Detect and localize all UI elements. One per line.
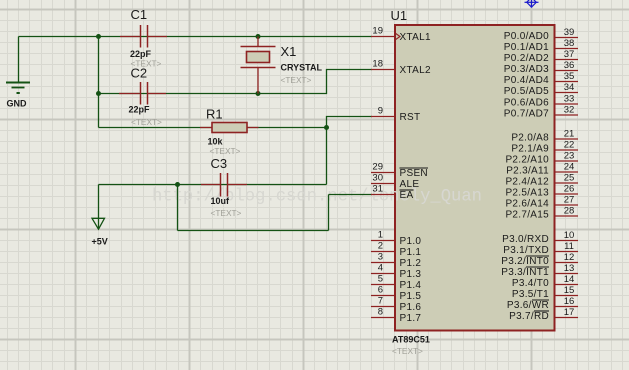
node D junction <box>256 91 261 96</box>
svg-text:EA: EA <box>400 190 414 201</box>
pin 3 P1.2 stub <box>371 262 394 264</box>
pin 21 P2.0-A8 stub <box>556 138 579 140</box>
pin name P1.0 <box>400 236 422 247</box>
pin 27 P2.6-A14 stub <box>556 204 579 206</box>
svg-text:P2.2/A10: P2.2/A10 <box>505 155 549 166</box>
svg-text:25: 25 <box>564 173 575 184</box>
pin name P3.6-WR <box>507 300 549 311</box>
svg-text:+5V: +5V <box>92 237 108 247</box>
svg-text:P3.2/INT0: P3.2/INT0 <box>501 256 549 267</box>
pin name P1.7 <box>400 313 422 324</box>
pin 5 P1.4 stub <box>371 284 394 286</box>
svg-text:24: 24 <box>564 162 575 173</box>
pin 35 P0.4-AD4 stub <box>556 81 579 83</box>
wire vertical to RST <box>327 117 373 185</box>
svg-text:RST: RST <box>400 112 421 123</box>
wire +5V stem <box>98 185 100 219</box>
capacitor C3 <box>201 173 247 197</box>
svg-text:GND: GND <box>7 99 28 109</box>
pin name P1.2 <box>400 258 422 269</box>
svg-text:2: 2 <box>378 241 383 252</box>
pin name P2.1-A9 <box>511 144 549 155</box>
svg-text:P1.6: P1.6 <box>400 302 422 313</box>
power +5V symbol <box>92 218 105 229</box>
svg-text:38: 38 <box>564 38 575 49</box>
svg-text:P1.5: P1.5 <box>400 291 422 302</box>
watermark text <box>152 187 482 207</box>
svg-text:21: 21 <box>564 129 575 140</box>
pin name RST <box>400 112 421 123</box>
svg-text:X1: X1 <box>281 44 297 59</box>
wire top net: GND rail to C1 / X1 top / XTAL1 <box>19 36 373 38</box>
pin 14 P3.4-T0 stub <box>556 284 579 286</box>
pin 13 P3.3-INT1 stub <box>556 273 579 275</box>
pin name P1.1 <box>400 247 422 258</box>
svg-text:35: 35 <box>564 71 575 82</box>
svg-text:P3.1/TXD: P3.1/TXD <box>503 245 549 256</box>
node A junction <box>96 34 101 39</box>
svg-text:31: 31 <box>372 184 383 195</box>
pin name ALE <box>400 179 420 190</box>
svg-text:<TEXT>: <TEXT> <box>211 208 242 218</box>
wire bottom loop run <box>178 230 329 232</box>
svg-text:P3.7/RD: P3.7/RD <box>509 311 549 322</box>
pin 25 P2.4-A12 stub <box>556 182 579 184</box>
svg-text:P1.7: P1.7 <box>400 313 422 324</box>
svg-text:XTAL1: XTAL1 <box>400 32 431 43</box>
pin name P2.4-A12 <box>505 177 549 188</box>
svg-text:P0.6/AD6: P0.6/AD6 <box>504 98 549 109</box>
svg-text:U1: U1 <box>391 8 408 23</box>
svg-text:15: 15 <box>564 285 575 296</box>
pin name P0.1-AD1 <box>504 42 549 53</box>
svg-text:P1.4: P1.4 <box>400 280 422 291</box>
svg-text:12: 12 <box>564 252 575 263</box>
pin 37 P0.2-AD2 stub <box>556 59 579 61</box>
svg-text:1: 1 <box>378 230 383 241</box>
svg-text:AT89C51: AT89C51 <box>392 335 430 345</box>
svg-text:16: 16 <box>564 296 575 307</box>
capacitor C1 <box>120 25 167 48</box>
svg-text:http://blog.csdn.net/lonely_Qu: http://blog.csdn.net/lonely_Quan <box>152 187 482 207</box>
pin 31 EA stub <box>371 194 394 196</box>
svg-text:32: 32 <box>564 105 575 116</box>
svg-text:P1.0: P1.0 <box>400 236 422 247</box>
svg-text:P0.4/AD4: P0.4/AD4 <box>504 75 549 86</box>
pin 33 P0.6-AD6 stub <box>556 103 579 105</box>
svg-text:P2.6/A14: P2.6/A14 <box>505 199 549 210</box>
svg-text:9: 9 <box>378 106 383 117</box>
svg-text:P0.3/AD3: P0.3/AD3 <box>504 64 549 75</box>
svg-text:P2.1/A9: P2.1/A9 <box>511 144 549 155</box>
pin 38 P0.1-AD1 stub <box>556 48 579 50</box>
svg-text:C2: C2 <box>131 66 148 81</box>
pin name P3.3-INT1 <box>501 267 549 278</box>
pin name P2.5-A13 <box>505 188 549 199</box>
pin XTAL1 clock input arrow <box>395 33 400 40</box>
svg-text:<TEXT>: <TEXT> <box>210 146 241 156</box>
pin 18 XTAL2 stub <box>371 69 394 71</box>
svg-text:P3.5/T1: P3.5/T1 <box>512 289 549 300</box>
pin 11 P3.1-TXD stub <box>556 251 579 253</box>
pin name P1.3 <box>400 269 422 280</box>
svg-text:ALE: ALE <box>400 179 420 190</box>
svg-text:P2.3/A11: P2.3/A11 <box>506 166 549 177</box>
svg-text:11: 11 <box>564 241 574 252</box>
pin name P3.0-RXD <box>502 234 549 245</box>
svg-text:27: 27 <box>564 195 575 206</box>
pin 30 ALE stub <box>371 183 394 185</box>
svg-text:33: 33 <box>564 94 575 105</box>
pin 4 P1.3 stub <box>371 273 394 275</box>
svg-text:3: 3 <box>378 252 383 263</box>
pin name XTAL1 <box>400 32 431 43</box>
pin name P0.4-AD4 <box>504 75 549 86</box>
pin name P2.2-A10 <box>505 155 549 166</box>
svg-text:P2.0/A8: P2.0/A8 <box>511 133 549 144</box>
svg-text:39: 39 <box>564 27 575 38</box>
svg-text:P0.5/AD5: P0.5/AD5 <box>504 86 549 97</box>
wire R1 row <box>99 127 327 129</box>
pin 6 P1.5 stub <box>371 295 394 297</box>
svg-text:P0.0/AD0: P0.0/AD0 <box>504 31 549 42</box>
svg-text:<TEXT>: <TEXT> <box>131 117 162 127</box>
pin name P2.6-A14 <box>505 199 549 210</box>
svg-text:29: 29 <box>372 162 383 173</box>
svg-text:C1: C1 <box>131 7 148 22</box>
pin 34 P0.5-AD5 stub <box>556 92 579 94</box>
svg-text:36: 36 <box>564 60 575 71</box>
svg-text:22pF: 22pF <box>130 49 152 59</box>
node E junction <box>324 125 329 130</box>
pin name PSEN <box>400 168 429 179</box>
pin 24 P2.3-A11 stub <box>556 171 579 173</box>
pin 15 P3.5-T1 stub <box>556 295 579 297</box>
svg-text:<TEXT>: <TEXT> <box>392 346 423 356</box>
pin 16 P3.6-WR stub <box>556 306 579 308</box>
svg-text:13: 13 <box>564 263 575 274</box>
svg-text:4: 4 <box>378 263 383 274</box>
pin name P2.3-A11 <box>506 166 549 177</box>
svg-text:P2.5/A13: P2.5/A13 <box>505 188 549 199</box>
svg-text:10: 10 <box>564 230 575 241</box>
ground <box>6 83 30 94</box>
svg-text:18: 18 <box>372 59 383 70</box>
svg-text:5: 5 <box>378 274 383 285</box>
svg-text:7: 7 <box>378 296 383 307</box>
pin name P3.1-TXD <box>503 245 549 256</box>
svg-text:28: 28 <box>564 206 575 217</box>
pin name P1.6 <box>400 302 422 313</box>
svg-text:P1.3: P1.3 <box>400 269 422 280</box>
svg-text:R1: R1 <box>206 107 223 122</box>
crystal X1 <box>241 37 276 94</box>
svg-text:17: 17 <box>564 307 575 318</box>
node F junction <box>175 182 180 187</box>
pin 39 P0.0-AD0 stub <box>556 37 579 39</box>
pin 36 P0.3-AD3 stub <box>556 70 579 72</box>
svg-text:P1.1: P1.1 <box>400 247 422 258</box>
svg-text:10uf: 10uf <box>211 196 231 206</box>
pin name P2.0-A8 <box>511 133 549 144</box>
wire vertical left bus x=98 <box>98 37 100 128</box>
svg-text:P2.7/A15: P2.7/A15 <box>505 210 549 221</box>
resistor R1 <box>200 123 259 133</box>
IC U1 AT89C51 chip body <box>395 25 555 331</box>
pin name P3.7-RD <box>509 311 549 322</box>
svg-text:22: 22 <box>564 140 575 151</box>
svg-text:10k: 10k <box>208 137 224 147</box>
svg-text:22pF: 22pF <box>129 105 151 115</box>
pin name P3.2-INT0 <box>501 256 549 267</box>
svg-text:XTAL2: XTAL2 <box>400 65 431 76</box>
pin 32 P0.7-AD7 stub <box>556 114 579 116</box>
pin name P0.7-AD7 <box>504 109 549 120</box>
svg-text:P3.0/RXD: P3.0/RXD <box>502 234 549 245</box>
svg-text:30: 30 <box>372 173 383 184</box>
pin name P0.2-AD2 <box>504 53 549 64</box>
pin 7 P1.6 stub <box>371 306 394 308</box>
pin 9 RST stub <box>371 116 394 118</box>
pin 1 P1.0 stub <box>371 240 394 242</box>
svg-text:26: 26 <box>564 184 575 195</box>
wire C3 row from +5V corner <box>99 184 327 186</box>
pin name P3.4-T0 <box>512 278 549 289</box>
pin 17 P3.7-RD stub <box>556 317 579 319</box>
pin name P0.3-AD3 <box>504 64 549 75</box>
wire GND stub down <box>18 37 20 83</box>
wire C2 row to XTAL2 with jog up <box>99 70 373 94</box>
pin 23 P2.2-A10 stub <box>556 160 579 162</box>
pin 10 P3.0-RXD stub <box>556 240 579 242</box>
origin marker <box>525 0 539 8</box>
capacitor C2 <box>119 82 166 105</box>
node B junction <box>256 34 261 39</box>
pin name P0.0-AD0 <box>504 31 549 42</box>
node C junction <box>96 91 101 96</box>
wire right leg of lower loop <box>328 195 330 231</box>
svg-text:8: 8 <box>378 307 383 318</box>
wire left leg of lower loop <box>177 185 179 231</box>
pin 19 XTAL1 stub <box>371 36 394 38</box>
svg-text:C3: C3 <box>211 156 228 171</box>
svg-text:PSEN: PSEN <box>400 168 428 179</box>
pin 8 P1.7 stub <box>371 317 394 319</box>
svg-text:P3.6/WR: P3.6/WR <box>507 300 549 311</box>
pin name XTAL2 <box>400 65 431 76</box>
svg-text:CRYSTAL: CRYSTAL <box>281 63 323 73</box>
pin 29 PSEN stub <box>371 172 394 174</box>
svg-text:19: 19 <box>372 26 383 37</box>
pin name P2.7-A15 <box>505 210 549 221</box>
svg-text:<TEXT>: <TEXT> <box>281 75 312 85</box>
svg-text:P0.1/AD1: P0.1/AD1 <box>504 42 549 53</box>
svg-text:P2.4/A12: P2.4/A12 <box>505 177 549 188</box>
svg-text:P3.3/INT1: P3.3/INT1 <box>501 267 549 278</box>
svg-text:P0.7/AD7: P0.7/AD7 <box>504 109 549 120</box>
pin name P3.5-T1 <box>512 289 549 300</box>
pin 22 P2.1-A9 stub <box>556 149 579 151</box>
pin 12 P3.2-INT0 stub <box>556 262 579 264</box>
pin 2 P1.1 stub <box>371 251 394 253</box>
pin name P1.5 <box>400 291 422 302</box>
svg-text:14: 14 <box>564 274 575 285</box>
svg-text:P3.4/T0: P3.4/T0 <box>512 278 549 289</box>
svg-text:34: 34 <box>564 82 575 93</box>
pin 26 P2.5-A13 stub <box>556 193 579 195</box>
pin name P0.5-AD5 <box>504 86 549 97</box>
wire wire to EA pin <box>329 194 373 196</box>
pin name EA <box>400 190 414 201</box>
pin name P1.4 <box>400 280 422 291</box>
svg-text:6: 6 <box>378 285 383 296</box>
svg-text:P0.2/AD2: P0.2/AD2 <box>504 53 549 64</box>
pin 28 P2.7-A15 stub <box>556 215 579 217</box>
svg-text:37: 37 <box>564 49 575 60</box>
svg-text:P1.2: P1.2 <box>400 258 422 269</box>
svg-text:23: 23 <box>564 151 575 162</box>
pin name P0.6-AD6 <box>504 98 549 109</box>
